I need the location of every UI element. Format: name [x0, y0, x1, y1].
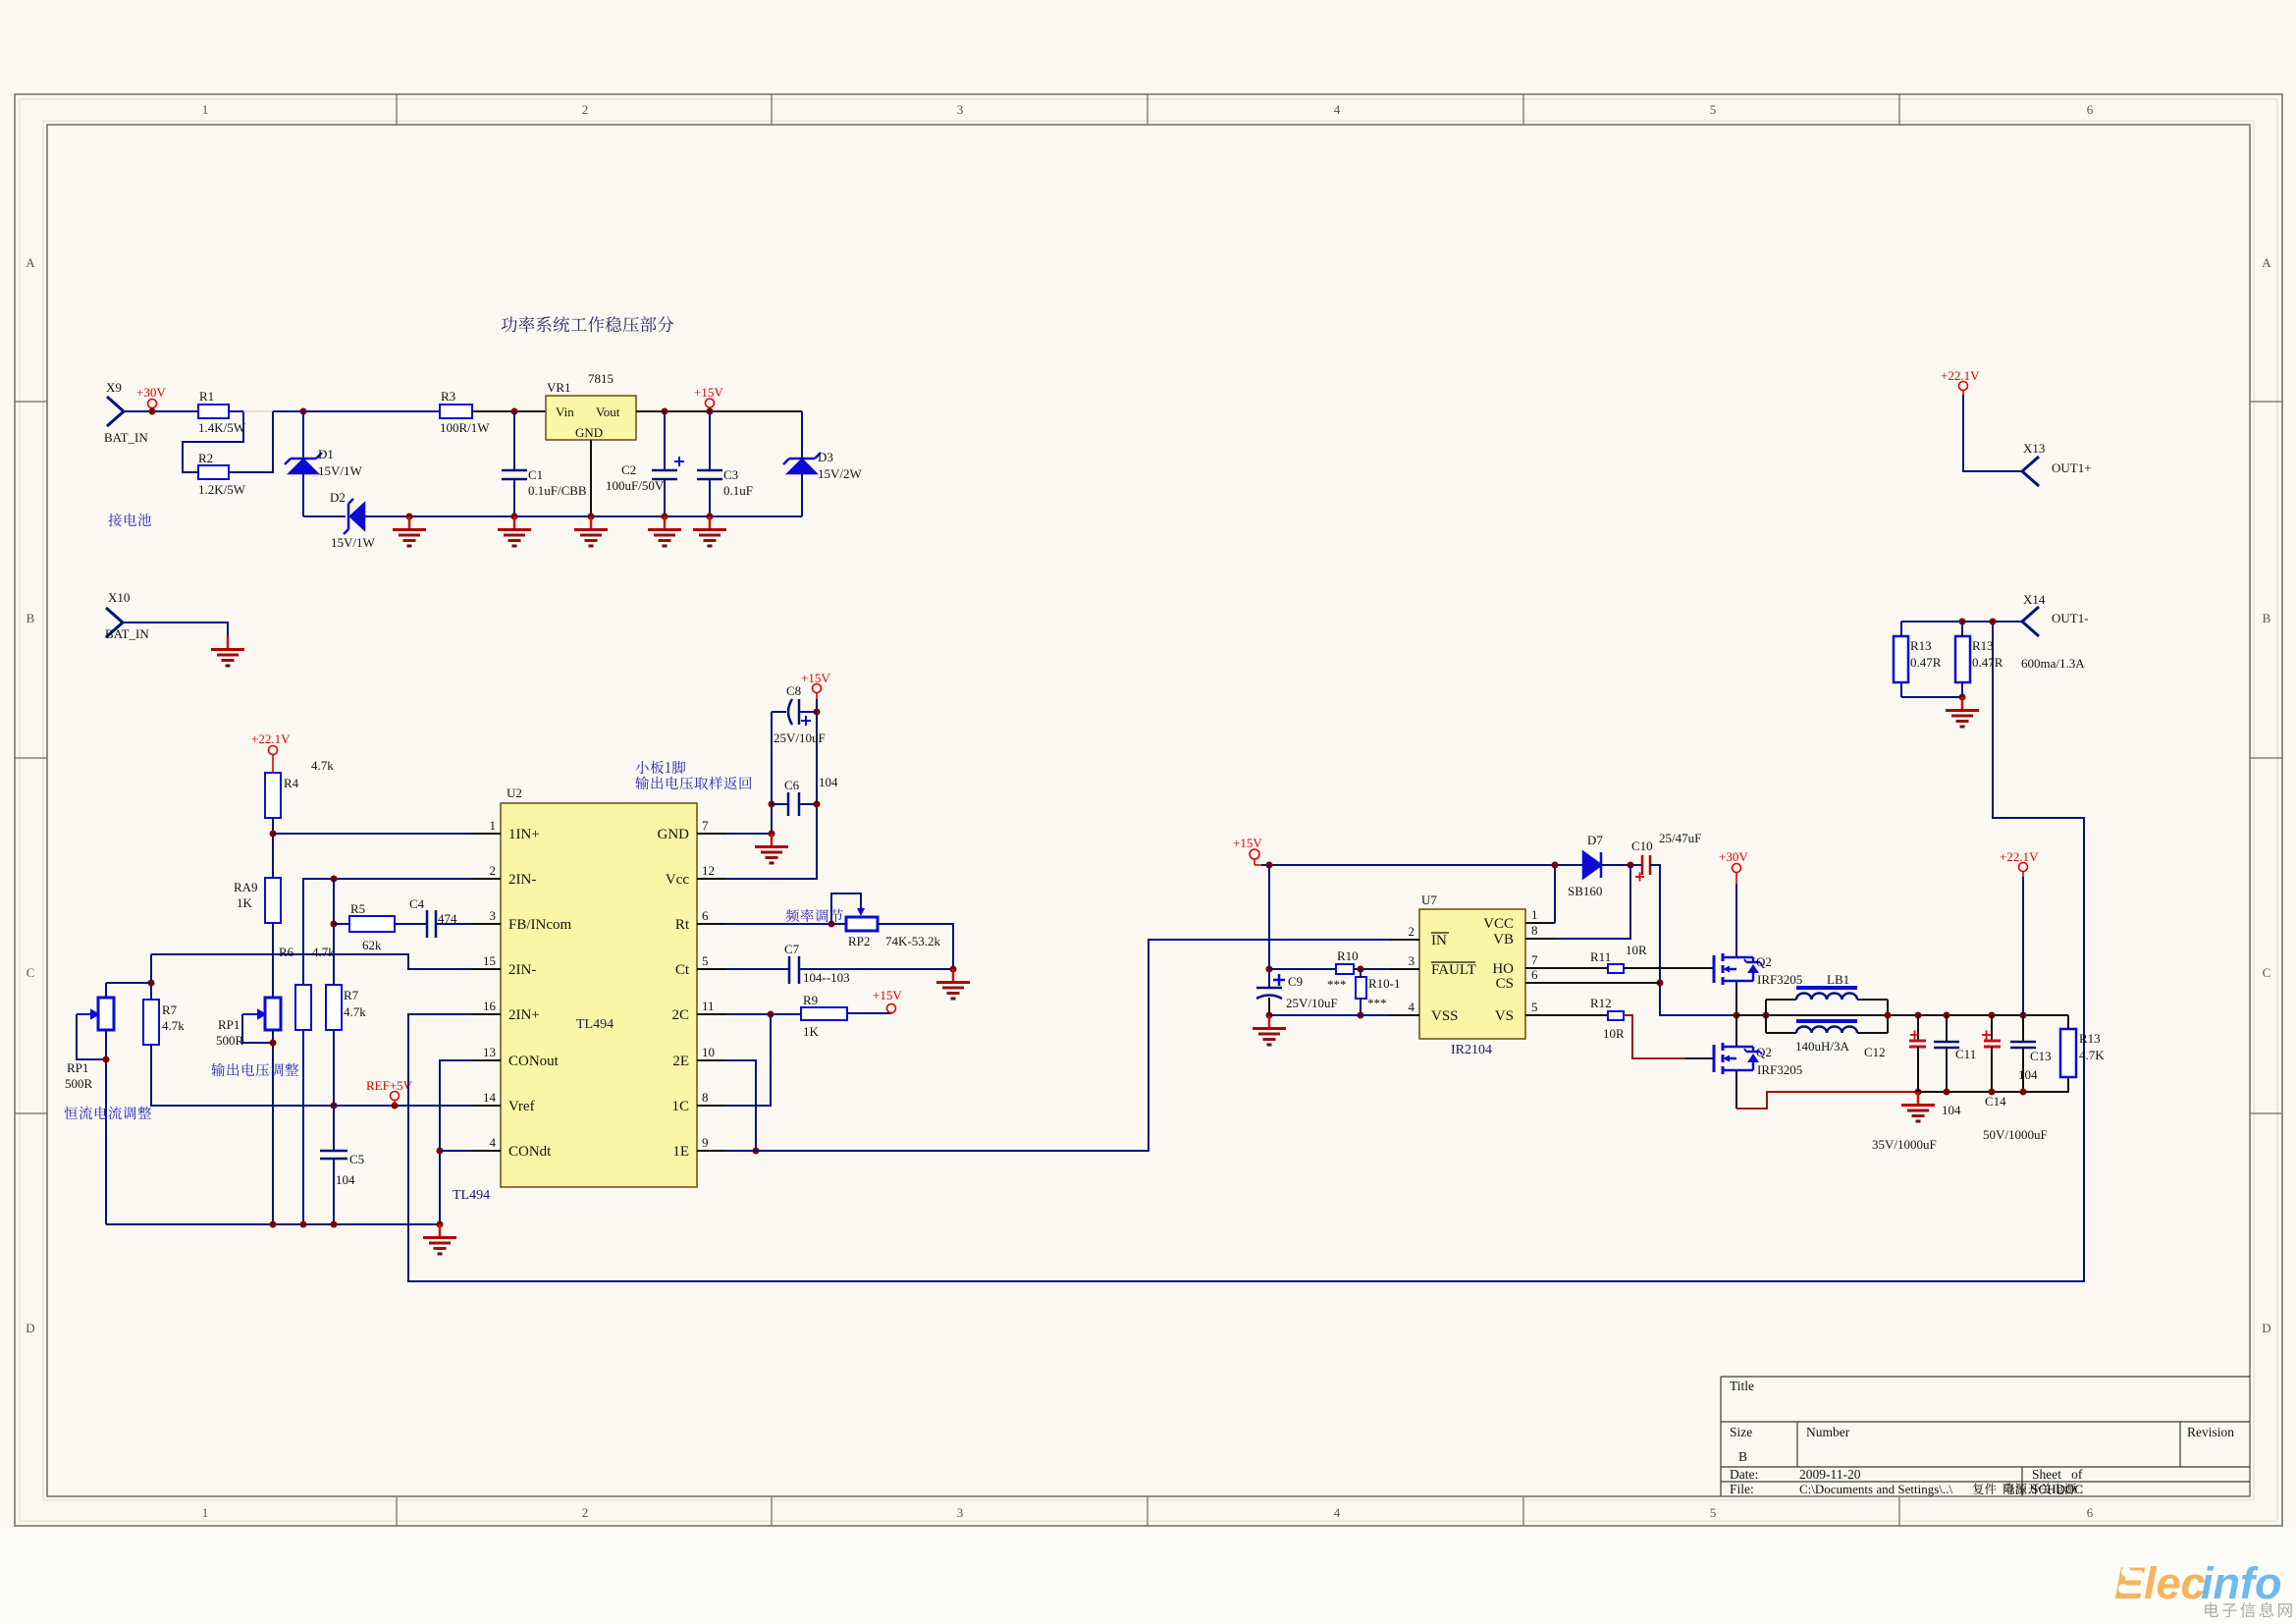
svg-text:+30V: +30V: [1719, 849, 1748, 864]
svg-text:Vout: Vout: [596, 405, 620, 419]
svg-text:25V/10uF: 25V/10uF: [1286, 996, 1338, 1010]
junction: [331, 1221, 338, 1228]
junction: [1959, 694, 1966, 701]
svg-text:C13: C13: [2030, 1049, 2052, 1063]
svg-text:0.47R: 0.47R: [1972, 655, 2003, 670]
wire VSS: [1269, 1014, 1390, 1016]
potentiometer RP1 output adjust: [265, 998, 281, 1030]
wire R7L bottom to vref: [151, 1045, 471, 1106]
U2 pin stubs: [471, 834, 726, 1151]
power port +30V: [1733, 864, 1741, 885]
wire R11 to gate: [1624, 967, 1714, 969]
node VCC: [1552, 862, 1559, 869]
svg-text:+15V: +15V: [694, 385, 723, 400]
wire bottom D1 to D2: [303, 515, 346, 517]
regulator VR1 7815: [546, 396, 636, 440]
wire C4 to pin3: [436, 923, 471, 925]
wire C8 left down: [771, 712, 773, 834]
wire VS: [1555, 1014, 1608, 1016]
svg-text:1E: 1E: [672, 1144, 689, 1160]
U7 pin stubs: [1390, 923, 1555, 1015]
resistor R3: [440, 405, 472, 418]
svg-text:6: 6: [1531, 967, 1538, 982]
wire Ct pin5: [726, 968, 788, 970]
power port +30V: [148, 400, 157, 412]
node C8 right: [814, 709, 821, 716]
svg-text:+15V: +15V: [873, 988, 902, 1002]
wire rail to R3: [273, 410, 440, 412]
svg-text:2IN+: 2IN+: [508, 1007, 540, 1023]
node VB branch: [1628, 862, 1634, 869]
svg-text:4.7k: 4.7k: [344, 1004, 366, 1019]
power port +15V: [887, 1004, 896, 1015]
resistor R2: [198, 465, 229, 479]
svg-text:VB: VB: [1493, 932, 1514, 947]
node pin1: [270, 831, 277, 838]
note sample return: [636, 761, 686, 774]
power port +15V: [706, 399, 715, 411]
U7 pin numbers: [1409, 924, 1415, 1014]
svg-text:C14: C14: [1985, 1094, 2006, 1109]
resistor R13 0.47R left: [1894, 636, 1908, 682]
capacitor C5: [320, 1151, 347, 1159]
svg-text:A: A: [26, 255, 35, 270]
node C6 left: [769, 801, 775, 808]
svg-text:D: D: [2262, 1321, 2270, 1335]
svg-text:CONout: CONout: [508, 1054, 560, 1069]
wire: [77, 1014, 106, 1059]
svg-text:Revision: Revision: [2187, 1425, 2234, 1439]
svg-text:C7: C7: [784, 942, 800, 956]
svg-text:4: 4: [1409, 1000, 1415, 1014]
svg-text:140uH/3A: 140uH/3A: [1795, 1039, 1850, 1054]
svg-text:3: 3: [1409, 953, 1415, 968]
power port +15V: [813, 684, 822, 700]
wire VR1 out: [636, 410, 802, 412]
svg-text:BAT_IN: BAT_IN: [105, 626, 149, 641]
capacitor C4: [427, 910, 436, 938]
svg-text:4.7k: 4.7k: [312, 945, 335, 959]
svg-text:500R: 500R: [65, 1076, 93, 1091]
svg-text:C3: C3: [723, 467, 738, 482]
phase rail: [1736, 1014, 2068, 1016]
wire R1 to R2 loop: [183, 411, 243, 472]
wire: [1685, 1057, 1714, 1059]
svg-text:C:\Documents and Settings\..\: C:\Documents and Settings\..\: [1799, 1482, 1952, 1496]
svg-text:16: 16: [483, 999, 497, 1013]
wire: [2126, 1571, 2142, 1574]
wire: [1360, 969, 1362, 977]
wire 2IN+ long feedback: [408, 622, 2084, 1281]
wire to R5: [334, 923, 349, 925]
svg-text:VS: VS: [1495, 1008, 1514, 1024]
svg-text:12: 12: [702, 863, 715, 878]
svg-text:2: 2: [490, 863, 497, 878]
IC U2 TL494: [501, 803, 697, 1187]
svg-text:SB160: SB160: [1568, 884, 1602, 898]
wire +15V rail to VCC/D7: [1261, 864, 1583, 866]
wire pin2: [303, 879, 471, 985]
svg-text:IN: IN: [1431, 933, 1447, 948]
wire CONout to CONdt: [440, 1060, 471, 1224]
svg-text:9: 9: [702, 1135, 709, 1150]
svg-text:6: 6: [2087, 1505, 2094, 1520]
wire +22.1V to output rail: [2022, 877, 2024, 1015]
svg-text:OUT1+: OUT1+: [2052, 460, 2092, 475]
svg-text:D: D: [26, 1321, 34, 1335]
resistor R11: [1608, 964, 1624, 973]
svg-text:3: 3: [957, 1505, 964, 1520]
svg-text:10: 10: [702, 1045, 715, 1059]
wire: [1917, 1047, 1919, 1092]
svg-text:+22.1V: +22.1V: [251, 731, 291, 746]
svg-text:FAULT: FAULT: [1431, 962, 1476, 978]
resistor RA9: [265, 878, 281, 923]
U2 pin numbers: [483, 818, 497, 1150]
wire R13 bottoms: [1901, 696, 1962, 698]
resistor R10-1: [1356, 977, 1366, 999]
ground: [574, 516, 608, 546]
wire X10 to ground: [123, 623, 228, 636]
svg-text:1: 1: [202, 1505, 209, 1520]
wire Rt pin6: [726, 923, 846, 925]
ground: [648, 516, 681, 546]
svg-text:Vref: Vref: [508, 1099, 535, 1114]
svg-text:CONdt: CONdt: [508, 1144, 552, 1160]
svg-text:U2: U2: [507, 785, 522, 800]
svg-text:U7: U7: [1421, 893, 1437, 907]
node D1 top: [300, 408, 307, 415]
svg-text:IRF3205: IRF3205: [1757, 1062, 1802, 1077]
wire D7 to C10: [1601, 864, 1641, 866]
resistor R1: [198, 405, 229, 418]
node phase top: [1734, 1012, 1740, 1019]
junction: [662, 514, 668, 520]
IC U7 IR2104: [1419, 909, 1525, 1039]
capacitor C12 polarized: [1915, 1012, 1922, 1019]
svg-text:104: 104: [1942, 1103, 1961, 1117]
wire C10 to CS and VS node: [1650, 865, 1736, 1015]
svg-text:D7: D7: [1587, 833, 1603, 847]
svg-text:5: 5: [1531, 1000, 1538, 1014]
node R10-1 top: [1358, 966, 1364, 973]
svg-text:4.7k: 4.7k: [162, 1018, 185, 1033]
faint unused segment: [243, 410, 273, 412]
svg-text:X9: X9: [106, 380, 122, 395]
wire RA9 to RP1: [272, 923, 274, 998]
node fault: [1266, 966, 1273, 973]
svg-text:Vin: Vin: [556, 405, 574, 419]
inductor LB1: [1763, 1012, 1770, 1019]
power port +22.1V mid: [2019, 863, 2028, 878]
resistor R10: [1336, 964, 1354, 974]
ground: [1946, 697, 1979, 727]
svg-text:0.47R: 0.47R: [1910, 655, 1942, 670]
svg-text:RP1: RP1: [218, 1017, 240, 1032]
wire 1E to IR2104 IN: [726, 940, 1390, 1151]
svg-text:D1: D1: [318, 447, 334, 461]
transistor Q2 high side IRF3205: [1714, 953, 1762, 1015]
capacitor C3: [697, 411, 722, 516]
junction: [270, 1040, 277, 1047]
junction: [707, 408, 714, 415]
wire down to fault/C9: [1268, 865, 1270, 988]
svg-text:5: 5: [1710, 1505, 1717, 1520]
capacitor C10: [1642, 855, 1650, 875]
node VSS gnd: [1266, 1012, 1273, 1019]
svg-text:X13: X13: [2023, 441, 2045, 456]
resistor R7 left: [143, 1000, 159, 1045]
svg-text:FB/INcom: FB/INcom: [508, 917, 572, 933]
wire R7L top: [150, 954, 152, 1000]
node at +30V: [149, 408, 156, 415]
junction: [437, 1221, 444, 1228]
svg-text:R13: R13: [2079, 1031, 2101, 1046]
gnd rail right: [1918, 1077, 2068, 1092]
svg-text:R11: R11: [1590, 949, 1611, 964]
svg-text:R7: R7: [344, 988, 359, 1002]
wire R12 to low gate (red): [1624, 1015, 1685, 1058]
wire: [106, 982, 151, 984]
note text: [108, 514, 151, 526]
svg-text:1K: 1K: [803, 1024, 820, 1039]
svg-text:REF+5V: REF+5V: [366, 1078, 413, 1093]
capacitor C11: [1944, 1012, 1950, 1019]
svg-text:C: C: [27, 965, 35, 980]
ground: [1901, 1092, 1935, 1121]
svg-text:TL494: TL494: [453, 1188, 490, 1203]
junction: [148, 980, 155, 987]
zener D3: [783, 411, 821, 516]
svg-text:1: 1: [490, 818, 497, 833]
wire VCC up: [1554, 865, 1556, 923]
wire R7 to vref: [333, 1030, 335, 1151]
connector X13: [2022, 457, 2039, 486]
svg-text:6: 6: [2087, 102, 2094, 117]
wire 2C pin11: [726, 1013, 801, 1015]
svg-text:Vcc: Vcc: [666, 872, 689, 888]
junction: [1990, 619, 1997, 625]
svg-text:X10: X10: [108, 590, 130, 605]
connector X14: [2022, 607, 2039, 636]
wire: [272, 1030, 274, 1224]
svg-text:4: 4: [1334, 102, 1341, 117]
svg-text:HO: HO: [1492, 961, 1514, 977]
diode D7: [1583, 852, 1601, 878]
node C2: [662, 408, 668, 415]
svg-text:IRF3205: IRF3205: [1757, 972, 1802, 987]
svg-text:5: 5: [1710, 102, 1717, 117]
svg-text:C1: C1: [528, 467, 543, 482]
Elecinfo watermark logo: [2114, 1558, 2281, 1608]
wire RP2 right down: [878, 924, 953, 969]
wire: [2123, 1588, 2140, 1591]
svg-text:13: 13: [483, 1045, 496, 1059]
svg-text:8: 8: [1531, 923, 1538, 938]
node C1 bottom: [511, 514, 518, 520]
capacitor C14 polarized: [1989, 1012, 1996, 1019]
svg-text:7: 7: [702, 818, 709, 833]
svg-text:VCC: VCC: [1483, 916, 1514, 932]
resistor R6: [295, 985, 311, 1030]
wire: [1961, 682, 1963, 697]
svg-text:.SCHDOC: .SCHDOC: [2028, 1482, 2083, 1496]
wire X14: [1901, 621, 2022, 623]
wire R4 to RA9: [272, 818, 274, 878]
svg-text:B: B: [1738, 1449, 1747, 1464]
svg-text:1C: 1C: [671, 1099, 689, 1114]
wire: [1961, 622, 1963, 636]
svg-text:11: 11: [702, 999, 715, 1013]
capacitor C2: [652, 411, 677, 516]
zener D1: [285, 411, 322, 516]
svg-text:Date:: Date:: [1730, 1467, 1758, 1482]
svg-text:info: info: [2201, 1558, 2281, 1608]
wire to X13: [1963, 395, 2022, 471]
svg-text:15: 15: [483, 953, 496, 968]
U7 pin names: [1431, 933, 1476, 1024]
node RP2 left: [828, 921, 835, 928]
svg-text:Number: Number: [1806, 1425, 1850, 1439]
node vref ref: [392, 1103, 399, 1110]
wire +30V to Q2 drain: [1735, 884, 1737, 957]
svg-text:Title: Title: [1730, 1379, 1754, 1393]
svg-text:R1: R1: [199, 389, 214, 404]
svg-text:OUT1-: OUT1-: [2052, 611, 2089, 625]
junction: [1885, 1012, 1892, 1019]
svg-text:25V/10uF: 25V/10uF: [774, 731, 826, 745]
wire R10 to pin3: [1354, 968, 1390, 970]
svg-text:3: 3: [490, 908, 497, 923]
wire: [105, 983, 107, 998]
resistor R12: [1608, 1011, 1624, 1020]
svg-text:15V/1W: 15V/1W: [331, 535, 376, 550]
wire: [1991, 1015, 1993, 1040]
wire CONdt: [440, 1150, 471, 1152]
svg-text:4: 4: [1334, 1505, 1341, 1520]
svg-text:5: 5: [702, 953, 709, 968]
svg-text:B: B: [27, 611, 35, 625]
svg-text:Size: Size: [1730, 1425, 1752, 1439]
wire R3 to VR1: [472, 410, 546, 412]
svg-text:1.2K/5W: 1.2K/5W: [198, 482, 246, 497]
svg-text:R7: R7: [162, 1002, 178, 1017]
svg-text:Q2: Q2: [1756, 1045, 1772, 1059]
svg-text:C2: C2: [621, 462, 636, 477]
svg-text:Sheet of: Sheet of: [2032, 1467, 2083, 1482]
svg-text:B: B: [2263, 611, 2271, 625]
wire pin1: [273, 833, 471, 835]
wire VB: [1555, 865, 1630, 939]
svg-text:35V/1000uF: 35V/1000uF: [1872, 1137, 1937, 1152]
capacitor C13: [2020, 1012, 2027, 1019]
wire: [105, 1030, 107, 1224]
svg-text:C8: C8: [786, 683, 801, 698]
svg-text:Ct: Ct: [675, 962, 690, 978]
svg-text:C5: C5: [349, 1152, 364, 1166]
svg-text:+15V: +15V: [1233, 836, 1262, 850]
wire 2IN- row: [151, 954, 471, 969]
svg-text:0.1uF/CBB: 0.1uF/CBB: [528, 483, 587, 498]
ground: [693, 516, 726, 546]
svg-text:7815: 7815: [588, 371, 614, 386]
svg-text:600ma/1.3A: 600ma/1.3A: [2021, 656, 2085, 671]
svg-text:104: 104: [336, 1172, 355, 1187]
title block: [1721, 1377, 2250, 1496]
wire node to R5 node: [333, 879, 335, 985]
svg-text:C12: C12: [1864, 1045, 1886, 1059]
wire C9 to VSS: [1268, 998, 1270, 1015]
resistor R13 0.47R right: [1955, 636, 1970, 682]
svg-text:R13: R13: [1972, 638, 1994, 653]
wire: [1431, 961, 1475, 963]
power port +22.1V top: [1959, 382, 1968, 396]
svg-text:X14: X14: [2023, 592, 2046, 607]
ground: [498, 516, 531, 546]
wire C7 to gnd: [799, 968, 953, 970]
svg-text:D2: D2: [330, 490, 346, 505]
wire +15V down to Vcc: [726, 699, 817, 879]
wire C5 to rail: [333, 1159, 335, 1224]
junction: [2020, 1089, 2027, 1096]
svg-text:R5: R5: [350, 901, 365, 916]
ground: [1253, 1015, 1286, 1045]
wire: [242, 1014, 273, 1043]
wire: [1360, 999, 1362, 1015]
node CS: [1657, 980, 1664, 987]
potentiometer RP1 current adjust: [98, 998, 114, 1030]
wire: [1991, 1047, 1993, 1092]
ground: [423, 1224, 456, 1254]
junction: [300, 1221, 307, 1228]
svg-text:62k: 62k: [362, 938, 382, 952]
junction: [103, 1056, 110, 1063]
ground bottom wire: [364, 515, 802, 517]
svg-text:R10-1: R10-1: [1368, 976, 1401, 991]
svg-text:15V/2W: 15V/2W: [818, 466, 863, 481]
svg-text:2: 2: [582, 102, 589, 117]
svg-text:8: 8: [702, 1090, 709, 1105]
wire 2C to 1C: [726, 1014, 771, 1106]
node vref R7: [331, 1103, 338, 1110]
section title: [502, 316, 674, 332]
svg-text:104--103: 104--103: [803, 970, 850, 985]
svg-text:GND: GND: [658, 827, 690, 842]
svg-text:RA9: RA9: [234, 880, 258, 894]
svg-text:***: ***: [1367, 996, 1387, 1010]
svg-text:104: 104: [819, 775, 838, 789]
wire: [1917, 1015, 1919, 1040]
svg-text:100R/1W: 100R/1W: [440, 420, 490, 435]
svg-text:4.7K: 4.7K: [2079, 1048, 2105, 1062]
svg-text:LB1: LB1: [1827, 972, 1849, 987]
wire R2 up to rail: [229, 411, 273, 472]
svg-text:1K: 1K: [237, 895, 253, 910]
svg-text:10R: 10R: [1626, 943, 1647, 957]
wire: [1900, 622, 1902, 636]
svg-text:1: 1: [202, 102, 209, 117]
svg-text:R3: R3: [441, 389, 455, 404]
svg-text:15V/1W: 15V/1W: [318, 463, 363, 478]
node C12 bottom: [1915, 1089, 1922, 1096]
svg-text:C: C: [2263, 965, 2271, 980]
svg-text:Elec: Elec: [2114, 1558, 2206, 1608]
node 2C: [768, 1011, 774, 1018]
wire 2E to 1E: [726, 1060, 756, 1151]
node C6 right: [814, 801, 821, 808]
node 1E: [753, 1148, 760, 1155]
node pin2/R7: [331, 876, 338, 883]
